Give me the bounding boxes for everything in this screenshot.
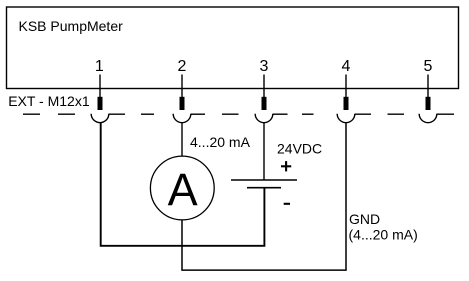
svg-text:1: 1 [95, 58, 104, 75]
connector socket 3 [255, 114, 273, 123]
wire pin3 to battery plus [263, 123, 265, 180]
wire pin1 stub [99, 75, 101, 98]
connector socket 4 [337, 114, 355, 123]
connector socket 5 [419, 114, 437, 123]
wire ammeter to bus2 to pin4 [182, 123, 346, 270]
wire pin2 to ammeter [181, 123, 183, 157]
svg-text:GND: GND [349, 211, 380, 227]
dashed boundary line EXT/M12x1 [23, 113, 454, 115]
battery 24VDC plus plate [231, 179, 297, 181]
wire pin1 to bus1 to battery minus (ground return) [101, 123, 265, 246]
svg-text:2: 2 [178, 58, 187, 75]
svg-text:EXT - M12x1: EXT - M12x1 [8, 93, 90, 109]
svg-text:A: A [168, 164, 198, 215]
connector pin 2 [180, 97, 185, 110]
wire pin3 stub [263, 75, 265, 98]
svg-text:(4...20 mA): (4...20 mA) [349, 227, 418, 243]
connector socket 2 [173, 114, 191, 123]
connector pin 5 [426, 97, 431, 110]
device box KSB PumpMeter [7, 7, 459, 89]
svg-text:24VDC: 24VDC [277, 140, 322, 156]
battery 24VDC minus plate [247, 187, 281, 189]
svg-text:KSB PumpMeter: KSB PumpMeter [19, 18, 124, 34]
ammeter A [150, 156, 214, 220]
battery plus sign [281, 161, 291, 171]
connector pin 4 [344, 97, 349, 110]
wire pin2 stub [181, 75, 183, 98]
svg-text:5: 5 [424, 58, 433, 75]
connector socket 1 [91, 114, 109, 123]
connector pin 1 [98, 97, 103, 110]
svg-text:3: 3 [260, 58, 269, 75]
battery minus sign [284, 203, 290, 205]
connector pin 3 [262, 97, 267, 110]
svg-text:4...20 mA: 4...20 mA [190, 134, 251, 150]
wire pin4 stub [345, 75, 347, 98]
svg-text:4: 4 [342, 58, 351, 75]
wire pin5 stub [427, 75, 429, 98]
